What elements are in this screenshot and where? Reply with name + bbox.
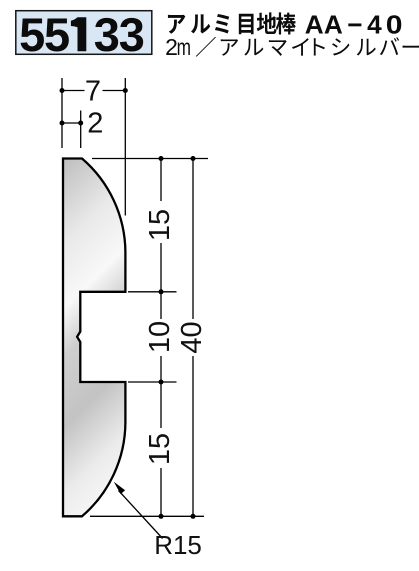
dim line 10 segment a: [160, 292, 162, 319]
dot 15 bottom: [159, 514, 164, 519]
svg-text:m: m: [177, 36, 191, 61]
dim 2 left dot: [60, 121, 65, 126]
extension line width 2 right: [80, 111, 82, 149]
svg-text:A: A: [324, 10, 343, 40]
R15 arrowhead: [114, 482, 125, 494]
dim line 40 segment b: [192, 356, 194, 516]
svg-text:A: A: [305, 10, 324, 40]
dim 7 left dot: [60, 88, 65, 93]
dim line 15 top segment a: [160, 159, 162, 202]
extension line notch bottom: [128, 381, 177, 383]
extension line left (width 7/2): [61, 78, 63, 148]
dot 40 top: [191, 156, 196, 161]
svg-text:5: 5: [19, 8, 45, 61]
dim 2 right dot: [78, 121, 83, 126]
extension line notch top: [128, 291, 177, 293]
svg-text:0: 0: [386, 9, 403, 39]
title line 1: アルミ目地棒: [168, 12, 296, 34]
extension line top (y=0): [92, 158, 208, 160]
part number box: [16, 11, 152, 55]
dimension line 7 left part: [62, 90, 85, 92]
dim 7 right dot: [123, 88, 128, 93]
dot 40 bottom: [191, 514, 196, 519]
svg-text:40: 40: [176, 321, 208, 353]
svg-text:15: 15: [144, 209, 176, 241]
svg-text:15: 15: [144, 433, 176, 465]
dim line 15 top segment b: [160, 243, 162, 292]
extension line width 7 right: [124, 78, 126, 216]
svg-text:5: 5: [44, 8, 70, 61]
svg-text:7: 7: [85, 76, 101, 108]
dim line 15 bottom segment b: [160, 468, 162, 516]
dimension line 7 right part: [103, 90, 126, 92]
dim line 40 segment a: [192, 159, 194, 320]
dim line 10 segment b: [160, 356, 162, 382]
svg-text:R15: R15: [154, 530, 202, 560]
dot 15/10 junction: [159, 289, 164, 294]
svg-text:3: 3: [119, 8, 145, 61]
dimension line 2: [62, 122, 81, 124]
aluminum joint bar profile cross-section: [63, 159, 125, 517]
svg-text:3: 3: [94, 8, 120, 61]
dim line 15 bottom segment a: [160, 382, 162, 428]
svg-text:4: 4: [367, 10, 382, 40]
svg-text:10: 10: [144, 321, 176, 353]
dot 15 top: [159, 156, 164, 161]
title line 2: ／アルマイトシルバー: [196, 37, 419, 57]
extension line bottom: [90, 515, 204, 517]
dot 10/15 junction: [159, 380, 164, 385]
svg-text:2: 2: [87, 108, 103, 140]
svg-text:−: −: [347, 10, 362, 40]
R15 leader line: [119, 491, 163, 539]
